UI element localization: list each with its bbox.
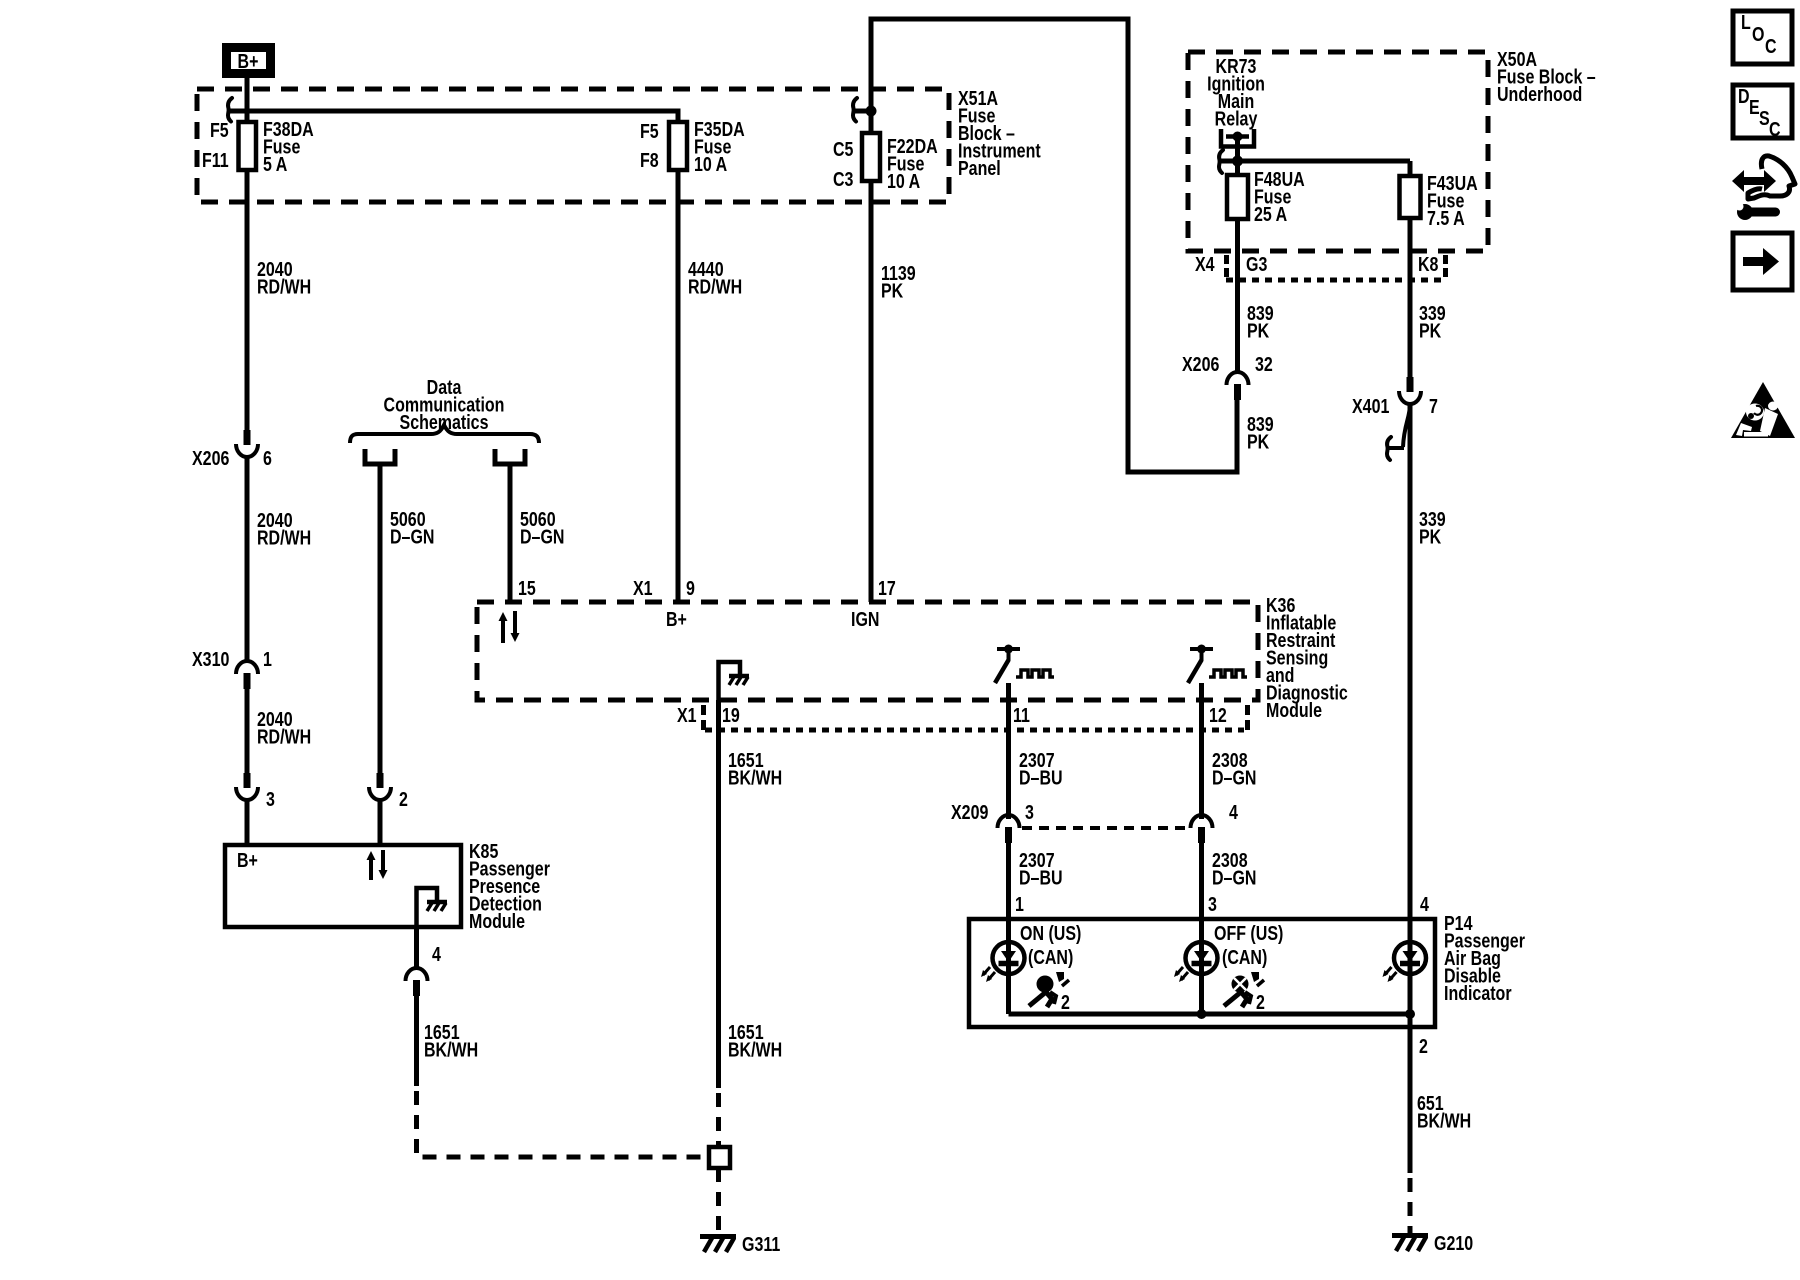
svg-text:D: D [1738, 85, 1750, 107]
svg-text:17: 17 [878, 577, 896, 599]
wire F43UA to X401, 339 PK [1408, 218, 1413, 377]
data arrows inside K36 [499, 611, 520, 643]
module K85 box [225, 845, 461, 927]
data arrows inside K85 [367, 850, 388, 880]
label 1651 BK/WH [424, 1021, 478, 1061]
dashed wire to ground G210 [1408, 1178, 1413, 1233]
svg-text:9: 9 [686, 577, 695, 599]
svg-text:Module: Module [1266, 699, 1322, 721]
label pin X4 G3 [1195, 253, 1267, 277]
label 1651 BK/WH [728, 749, 782, 789]
battery feed B+ terminal [227, 48, 271, 74]
junction dot at relay output [1232, 156, 1243, 167]
icon LOC reference box [1733, 11, 1792, 64]
connector X310 pin 1 [192, 648, 272, 689]
connector boundary dotted line under K36 [705, 728, 1244, 733]
svg-text:C3: C3 [833, 168, 853, 190]
svg-text:BK/WH: BK/WH [728, 1039, 782, 1061]
off-page connector to data schematics right [495, 449, 525, 464]
wire X209-3 to P14 pin 1, 2307 D-BU [1006, 843, 1011, 919]
hook clip at F22DA bus [853, 98, 857, 122]
svg-text:10 A: 10 A [887, 170, 920, 192]
label 1139 PK [881, 262, 916, 302]
icon airbag caution triangle [1731, 382, 1795, 438]
svg-text:O: O [1752, 23, 1764, 45]
fuse F38DA 5A [202, 118, 314, 175]
svg-text:G311: G311 [742, 1233, 780, 1255]
svg-text:3: 3 [266, 788, 275, 810]
icon DESC reference box [1733, 85, 1792, 140]
svg-text:RD/WH: RD/WH [257, 276, 311, 298]
svg-text:10 A: 10 A [694, 153, 727, 175]
svg-text:RD/WH: RD/WH [257, 527, 311, 549]
dashed connector line X209 [1022, 826, 1188, 830]
internal ground at K36 pin 19 [719, 662, 750, 700]
wire K36 pin 19 down, 1651 BK/WH [716, 700, 721, 1088]
wire F48UA to X206 pin 32, 839 PK [1235, 219, 1240, 372]
svg-text:PK: PK [1419, 526, 1441, 548]
indicator P14 box [969, 919, 1435, 1027]
dashed wire to splice [716, 1093, 721, 1146]
svg-text:Module: Module [469, 910, 525, 932]
svg-text:F11: F11 [202, 149, 229, 171]
wire to K85 pin 2, 5060 D-GN [378, 466, 383, 773]
svg-text:D–BU: D–BU [1019, 767, 1063, 789]
label 1651 BK/WH lower [728, 1021, 782, 1061]
LED indicator ON [981, 919, 1025, 1014]
svg-text:RD/WH: RD/WH [257, 726, 311, 748]
svg-text:2: 2 [1256, 991, 1265, 1013]
fuse F35DA 10A [640, 118, 745, 175]
connector boundary dotted line under X50A [1226, 278, 1444, 283]
wire pin 4 to splice, 1651 BK/WH [414, 996, 419, 1086]
label 2307 D-BU [1019, 749, 1063, 789]
svg-text:3: 3 [1025, 801, 1034, 823]
label 5060 D-GN [390, 508, 434, 548]
label 4440 RD/WH [688, 258, 742, 298]
brace over data wires [350, 425, 539, 443]
svg-text:F5: F5 [210, 119, 229, 141]
airbag pictogram ON [1029, 972, 1070, 1013]
svg-text:X1: X1 [677, 704, 697, 726]
relay KR73 contact symbol [1221, 129, 1254, 161]
label 2308 D-GN [1212, 849, 1256, 889]
svg-text:3: 3 [1208, 893, 1217, 915]
junction at F22DA [866, 106, 877, 117]
svg-text:(CAN): (CAN) [1222, 946, 1267, 968]
svg-text:PK: PK [1247, 431, 1269, 453]
wire X310 to K85 pin 3, 2040 RD/WH [245, 689, 250, 773]
label X51A Fuse Block Instrument Panel [958, 87, 1041, 179]
connector K85 pin 3 [236, 773, 275, 810]
svg-text:32: 32 [1255, 353, 1273, 375]
svg-text:D–GN: D–GN [1212, 767, 1256, 789]
airbag pictogram OFF crossed [1224, 972, 1265, 1013]
wire X209-4 to P14 pin 3, 2308 D-GN [1199, 843, 1204, 919]
wire to K36 pin 15, 5060 D-GN [508, 466, 513, 604]
svg-text:4: 4 [1420, 893, 1429, 915]
svg-text:19: 19 [722, 704, 740, 726]
output driver at K36 pin 12 [1188, 645, 1247, 684]
svg-text:D–GN: D–GN [390, 526, 434, 548]
module K36 dashed box [477, 602, 1258, 700]
label 2040 RD/WH [257, 708, 311, 748]
svg-text:G210: G210 [1434, 1232, 1473, 1254]
pin X1 19 label [677, 704, 740, 730]
label 651 BK/WH [1417, 1092, 1471, 1132]
wire X206 to X310, 2040 RD/WH [245, 457, 250, 662]
wire K36 pin 11 to X209 pin 3, 2307 D-BU [1006, 683, 1011, 819]
svg-text:RD/WH: RD/WH [688, 276, 742, 298]
svg-text:4: 4 [1229, 801, 1238, 823]
connector X206 pin 6 [192, 430, 272, 469]
LED indicator disable [1383, 919, 1427, 1027]
fuse block X50A dashed box [1188, 52, 1488, 251]
internal bus wire in P14 [1009, 1012, 1411, 1017]
junction dot pin3 branch [1197, 1009, 1207, 1019]
connector X209 pin 4 [1191, 801, 1238, 843]
svg-text:G3: G3 [1246, 253, 1267, 275]
svg-text:5 A: 5 A [263, 153, 287, 175]
svg-text:D–BU: D–BU [1019, 867, 1063, 889]
svg-text:X310: X310 [192, 648, 229, 670]
wire B+ to fuse F38DA [245, 78, 250, 122]
hook clip at relay junction [1219, 150, 1223, 173]
svg-text:6: 6 [263, 447, 272, 469]
svg-text:E: E [1749, 96, 1760, 118]
output driver at K36 pin 11 [995, 645, 1054, 684]
svg-text:X206: X206 [1182, 353, 1219, 375]
svg-text:X206: X206 [192, 447, 229, 469]
label 839 PK upper [1247, 302, 1274, 342]
label 2307 D-BU [1019, 849, 1063, 889]
svg-text:S: S [1759, 107, 1770, 129]
label 5060 D-GN [520, 508, 564, 548]
svg-text:2: 2 [1061, 991, 1070, 1013]
off-page connector to data schematics left [365, 449, 395, 464]
bus wire inside X51A to F35DA [230, 111, 678, 122]
svg-text:X401: X401 [1352, 395, 1389, 417]
internal ground in K85 [417, 888, 448, 927]
svg-text:2: 2 [1419, 1035, 1428, 1057]
fuse F22DA 10A [833, 133, 938, 192]
ground G311 [700, 1233, 780, 1255]
svg-text:D–GN: D–GN [520, 526, 564, 548]
icon double arrow with wrench [1732, 156, 1795, 220]
junction dot pin4 branch [1405, 1009, 1415, 1019]
wire K36 pin 12 to X209 pin 4, 2308 D-GN [1199, 683, 1204, 819]
svg-text:B+: B+ [666, 608, 687, 630]
label P14 Passenger Air Bag Disable Indicator [1444, 912, 1525, 1004]
svg-text:F8: F8 [640, 149, 659, 171]
svg-text:PK: PK [1419, 320, 1441, 342]
svg-text:25 A: 25 A [1254, 203, 1287, 225]
svg-text:2: 2 [399, 788, 408, 810]
svg-text:L: L [1741, 11, 1751, 33]
ground G210 [1392, 1232, 1473, 1254]
svg-text:BK/WH: BK/WH [1417, 1110, 1471, 1132]
label X50A Fuse Block Underhood [1497, 48, 1596, 105]
wire P14 pin 2 down, 651 BK/WH [1408, 1027, 1413, 1173]
svg-text:D–GN: D–GN [1212, 867, 1256, 889]
label 2308 D-GN [1212, 749, 1256, 789]
pin 12 label [1209, 704, 1250, 730]
svg-text:Panel: Panel [958, 157, 1001, 179]
svg-text:PK: PK [1247, 320, 1269, 342]
connector K85 pin 4 [406, 943, 441, 996]
wire K85 pin2 into module [378, 800, 383, 845]
pin 17 label [851, 577, 896, 630]
fuse F43UA 7.5A [1400, 161, 1478, 229]
svg-text:11: 11 [1013, 704, 1030, 726]
svg-text:F5: F5 [640, 120, 659, 142]
wire F22DA to K36 pin 17, 1139 PK [869, 181, 874, 602]
svg-text:ON (US): ON (US) [1020, 922, 1081, 944]
wire X401 to P14 pin 4, 339 PK [1408, 404, 1413, 919]
wire K85 pin 4 down [414, 927, 419, 969]
svg-text:Indicator: Indicator [1444, 982, 1512, 1004]
svg-text:B+: B+ [238, 50, 259, 72]
icon forward arrow box [1733, 233, 1792, 290]
splice S-box [709, 1147, 730, 1168]
svg-text:4: 4 [432, 943, 441, 965]
connector K85 pin 2 [369, 773, 408, 810]
svg-text:B+: B+ [237, 849, 258, 871]
svg-text:7.5 A: 7.5 A [1427, 207, 1465, 229]
label K85 Passenger Presence Detection Module [469, 840, 550, 932]
label 339 PK upper [1419, 302, 1446, 342]
label 2040 RD/WH [257, 258, 311, 298]
svg-text:BK/WH: BK/WH [424, 1039, 478, 1061]
fuse block X51A dashed box [197, 89, 949, 202]
wire IGN loop: from relay junction via top to F22DA [1237, 159, 1410, 164]
label Data Communication Schematics [384, 376, 505, 433]
label OFF (US) (CAN) [1214, 922, 1283, 968]
dashed wire splice to ground G311 [716, 1168, 721, 1233]
svg-text:7: 7 [1429, 395, 1438, 417]
svg-text:BK/WH: BK/WH [728, 767, 782, 789]
svg-text:X209: X209 [951, 801, 988, 823]
wire F35DA to K36 pin 9, 4440 RD/WH [676, 170, 681, 602]
svg-text:OFF (US): OFF (US) [1214, 922, 1283, 944]
svg-text:C5: C5 [833, 138, 853, 160]
dashed wire pin 4 elbow to splice [417, 1091, 710, 1157]
label K36 Inflatable Restraint Sensing and Diagnostic Module [1266, 594, 1348, 721]
LED indicator OFF [1174, 919, 1218, 1014]
svg-text:PK: PK [881, 280, 903, 302]
svg-text:X4: X4 [1195, 253, 1215, 275]
svg-text:12: 12 [1209, 704, 1227, 726]
svg-text:Relay: Relay [1215, 108, 1258, 130]
hook clip at F38DA bus [228, 98, 232, 122]
fuse F48UA 25A [1227, 161, 1305, 225]
svg-text:1: 1 [1015, 893, 1024, 915]
connector X209 pin 3 [951, 801, 1034, 843]
wire F38DA to X206 pin 6, 2040 RD/WH [245, 170, 250, 430]
svg-text:X1: X1 [633, 577, 653, 599]
wire K85 pin3 into module [245, 800, 250, 845]
svg-text:IGN: IGN [851, 608, 879, 630]
svg-text:C: C [1769, 118, 1781, 140]
svg-text:K8: K8 [1418, 253, 1438, 275]
label 339 PK lower [1419, 508, 1446, 548]
svg-text:1: 1 [263, 648, 272, 670]
label ON (US) (CAN) [1020, 922, 1081, 968]
svg-text:(CAN): (CAN) [1028, 946, 1073, 968]
label pin K8 [1418, 253, 1448, 277]
svg-text:C: C [1765, 35, 1777, 57]
stub from hook to F22DA wire [853, 109, 871, 114]
label KR73 Ignition Main Relay [1207, 55, 1265, 130]
hook clip branch below X401 [1387, 404, 1410, 460]
svg-text:Underhood: Underhood [1497, 83, 1582, 105]
pin X1 9 label [633, 577, 695, 630]
label 839 PK lower [1247, 413, 1274, 453]
connector X401 pin 7 [1352, 377, 1438, 417]
label 2040 RD/WH [257, 509, 311, 549]
svg-text:15: 15 [518, 577, 536, 599]
connector X206 pin 32 [1182, 353, 1273, 400]
